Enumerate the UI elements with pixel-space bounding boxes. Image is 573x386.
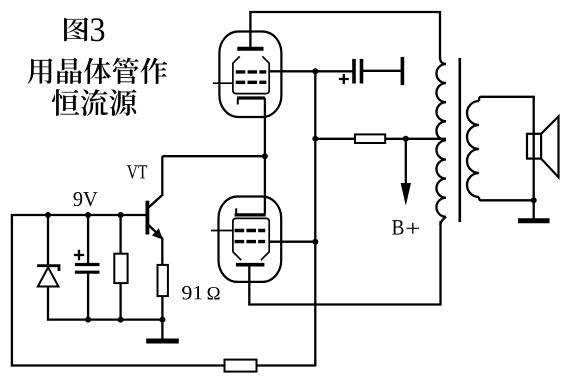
wire electrolytic capacitor top lead (87, 215, 89, 265)
capacitor end plate bar (401, 57, 405, 85)
capacitor C-coupling plate right (360, 59, 364, 84)
label B+ (392, 220, 403, 234)
node dot bottom-rail-91ohm (159, 317, 165, 323)
node dot speaker-ground junction (531, 197, 537, 203)
wire center column (314, 71, 316, 366)
label VT (127, 165, 147, 178)
node dot rail-diode (45, 212, 51, 218)
resistor R-bias (vertical) (114, 254, 127, 283)
tube V2 plate lead to transformer bottom (249, 221, 440, 305)
label + polarity of coupling capacitor (339, 74, 349, 84)
tube V1 grid stub (left) (213, 82, 233, 84)
transformer core (458, 58, 461, 222)
tube V2 plate bar (236, 263, 265, 267)
wire column to screen resistor (315, 138, 355, 140)
tube V2 grid stub (left) (211, 230, 233, 232)
tube V1 envelope (219, 32, 281, 118)
tube V2 grid row 2 (dashed) (235, 240, 266, 243)
tube V1 heater left stub (237, 98, 239, 105)
resistor R-screen (horizontal) (355, 134, 385, 143)
tube V1 grid row 1 (dashed) (236, 70, 267, 73)
node dot B+ junction (403, 136, 409, 142)
title text line2 用晶体管作 (28, 58, 53, 84)
node dot rail-capacitor (85, 212, 91, 218)
wire capacitor to end plate (362, 70, 401, 72)
tube V2 envelope (219, 197, 282, 282)
wire zener diode top lead (47, 215, 49, 265)
wire bottom inner rail (47, 318, 162, 320)
speaker driver rectangle (527, 134, 541, 159)
tube V1 plate bar (237, 47, 263, 51)
label + polarity of electrolytic capacitor (74, 250, 84, 260)
zener diode VD cathode bar (37, 266, 59, 271)
transistor VT emitter lead with arrow (149, 225, 163, 265)
transformer primary winding (440, 57, 446, 64)
node dot rail-resistor (118, 212, 124, 218)
label ohm symbol (208, 287, 220, 300)
title text 图3 (figure 3) - char 图 enclosure 囗 (64, 17, 88, 41)
ground symbol (right) (518, 218, 550, 223)
capacitor C-coupling plate left (352, 59, 356, 84)
node dot grid-wire junction (312, 68, 318, 74)
wire 91-ohm resistor bottom lead (161, 296, 163, 338)
wire secondary bottom to speaker (481, 199, 534, 201)
node dot column-V2-grid junction (312, 239, 318, 245)
title text 图3 - char 图 inner 冬 (67, 20, 86, 39)
tube V1 cathode cup (233, 56, 269, 93)
transistor VT collector lead (149, 156, 163, 207)
tube V1 heater bar (237, 96, 265, 99)
tube V2 cathode cup (233, 218, 269, 260)
node dot cathode junction (262, 153, 268, 159)
tube V1 plate lead and top wire to transformer (250, 12, 440, 59)
tube V1 grid row 2 (dashed) (236, 81, 267, 84)
wire zener diode bottom lead (47, 287, 49, 321)
node dot bottom-rail-resistor (118, 317, 124, 323)
wire collector to tubes cathode junction (162, 155, 266, 157)
wire to right ground (533, 200, 535, 218)
ground symbol (left) (146, 339, 179, 344)
title text 图3 - digit 3 (91, 18, 104, 41)
B+ feed arrow (405, 139, 407, 184)
speaker cone (541, 116, 558, 177)
wire bias resistor top lead (119, 215, 121, 254)
wire tube V1 grid lead to coupling capacitor (269, 70, 352, 72)
node dot bottom-rail-capacitor (85, 317, 91, 323)
electrolytic capacitor C plate bottom (75, 271, 100, 274)
transistor VT base bar (145, 201, 149, 235)
wire electrolytic capacitor bottom lead (87, 272, 89, 320)
tube V2 heater left stub (235, 208, 237, 215)
wire left edge vertical (11, 214, 13, 367)
wire bias resistor bottom lead (119, 283, 121, 321)
wire tube cathode-heater vertical link (264, 98, 266, 214)
tube V2 grid row 1 (dashed) (235, 229, 266, 232)
zener diode VD triangle (38, 267, 59, 286)
node dot column-resistor junction (312, 136, 318, 142)
electrolytic capacitor C plate top (75, 263, 100, 266)
resistor R-bottom (in bottom return wire) (225, 360, 257, 372)
tube V2 heater bar (235, 213, 266, 216)
resistor R 91-ohm (vertical) (158, 265, 168, 296)
wire bottom return (long) (11, 364, 315, 366)
wire 9V supply rail (top) (11, 214, 146, 216)
label 91 (182, 286, 202, 299)
wire secondary top to speaker (481, 97, 534, 201)
title text line3 恒流源 (52, 89, 79, 116)
label 9V (73, 192, 97, 206)
transformer secondary winding (479, 97, 481, 101)
wire tube V2 grid lead to column (269, 241, 315, 243)
wire screen resistor to transformer tap (385, 138, 446, 140)
